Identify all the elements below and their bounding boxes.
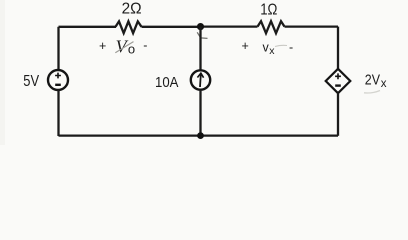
label 2Vx bbox=[365, 72, 387, 91]
label 5V bbox=[23, 73, 39, 90]
svg-text:10A: 10A bbox=[155, 75, 178, 91]
svg-text:2Ω: 2Ω bbox=[122, 0, 142, 17]
svg-text:+: + bbox=[99, 39, 106, 53]
current source I1 10A (circle with up arrow) bbox=[191, 70, 210, 89]
resistor 1Ω (zigzag) bbox=[258, 21, 285, 33]
svg-text:1Ω: 1Ω bbox=[260, 1, 277, 18]
node A (top middle junction dot) bbox=[197, 23, 204, 30]
wire: left branch upper (corner down to 5V source) bbox=[57, 27, 59, 70]
paper background bbox=[0, 0, 408, 145]
value label 2Ω bbox=[122, 0, 142, 17]
svg-text:x: x bbox=[381, 78, 387, 90]
wire: top rail middle segment (2Ω to node A) bbox=[142, 26, 201, 28]
svg-text:-: - bbox=[289, 41, 293, 55]
wire: right branch upper (top-right corner down to dependent source) bbox=[337, 27, 339, 70]
resistor 2Ω (zigzag) bbox=[116, 21, 142, 33]
wire: middle branch upper (node A down to 10A source) bbox=[199, 27, 201, 71]
svg-text:5V: 5V bbox=[23, 73, 39, 90]
svg-text:-: - bbox=[143, 39, 147, 53]
label 10A bbox=[155, 75, 178, 91]
wire: top rail right segment (1Ω to top-right corner) bbox=[285, 25, 339, 27]
wire: middle branch lower (10A source to bottom node) bbox=[199, 90, 201, 136]
wire: bottom rail bbox=[59, 134, 339, 136]
stray scan mark below 2Vx bbox=[364, 91, 380, 94]
node B (bottom middle junction dot) bbox=[197, 132, 204, 139]
wire: top rail segment (node A to 1Ω resistor) bbox=[201, 25, 258, 27]
label + vx - (voltage across 1Ω) bbox=[242, 39, 294, 57]
label + Vo - (voltage across 2Ω, V struck through) bbox=[99, 36, 147, 56]
value label 1Ω bbox=[260, 1, 277, 18]
wire: left branch lower (5V source to bottom rail) bbox=[57, 90, 59, 136]
current direction tick below node A bbox=[197, 32, 207, 38]
wire: top rail left segment (corner to 2Ω resistor) bbox=[59, 26, 117, 28]
wire: right branch lower (dependent source to bottom-right corner) bbox=[337, 93, 339, 136]
dependent source 2Vx (diamond symbol) bbox=[326, 69, 351, 93]
svg-text:2V: 2V bbox=[365, 72, 380, 89]
svg-text:+: + bbox=[242, 39, 249, 53]
svg-text:x: x bbox=[269, 45, 275, 57]
voltage source V1 5V (circle symbol) bbox=[48, 70, 68, 90]
